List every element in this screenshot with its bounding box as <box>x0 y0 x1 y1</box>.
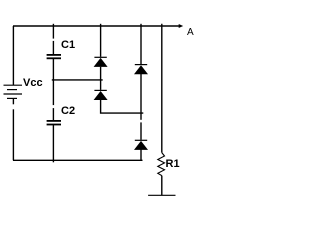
wire C-branch to C1 <box>52 41 54 55</box>
diode D2 <box>94 90 108 100</box>
battery Vcc <box>4 85 23 98</box>
wire left vertical upper <box>12 26 14 85</box>
resistor R1 <box>158 153 165 176</box>
diode D1 <box>94 57 108 67</box>
label node A <box>187 28 194 38</box>
wire diode2 to elbow <box>101 100 144 113</box>
diode D4 <box>134 140 148 150</box>
wire middle horizontal <box>52 79 103 81</box>
wire C1 to mid <box>52 59 54 105</box>
wire top horizontal <box>13 25 180 27</box>
wire diode branch top <box>100 24 102 57</box>
label C1 <box>61 40 75 51</box>
label R1 <box>166 159 180 170</box>
label C2 <box>61 106 75 117</box>
wire C-branch top <box>52 24 54 39</box>
node A arrowhead <box>179 24 184 28</box>
wire bottom horizontal <box>13 159 143 161</box>
wire between diode1 and diode2 <box>100 67 102 90</box>
capacitor C1 <box>47 55 61 58</box>
wire battery stub bottom <box>12 98 14 104</box>
diode D3 <box>134 65 148 75</box>
ground <box>148 194 175 196</box>
wire left vertical lower <box>12 109 14 160</box>
wire R1 to ground <box>161 176 163 196</box>
wire gap to diode4 <box>140 122 142 139</box>
wire diode4 to bottom <box>140 149 142 160</box>
capacitor C2 <box>47 121 61 125</box>
wire right diode branch top <box>140 24 142 64</box>
wire C2 to bottom <box>52 125 54 162</box>
label Vcc <box>23 78 43 89</box>
wire R1 branch top <box>161 24 163 153</box>
wire diode3 to gap <box>140 74 142 120</box>
wire mid to C2 <box>52 108 54 120</box>
